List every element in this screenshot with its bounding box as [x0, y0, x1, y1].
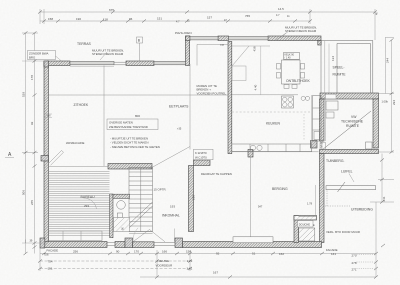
svg-text:547: 547	[258, 205, 263, 209]
